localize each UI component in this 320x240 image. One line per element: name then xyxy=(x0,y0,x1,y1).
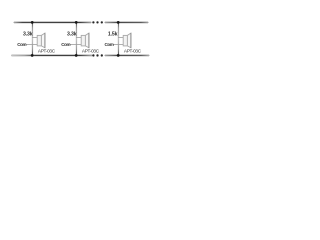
wire: branch 3 stub to sounder top pin xyxy=(118,37,124,39)
junction: branch 3 bottom node xyxy=(117,54,120,57)
piezo sounder LS2 (APT-03C) xyxy=(81,33,89,48)
wire: bottom bus, left section xyxy=(11,54,93,56)
svg-text:Com: Com xyxy=(105,42,114,47)
svg-text:APT-03C: APT-03C xyxy=(124,49,142,54)
ellipsis dots on bottom bus (repeated units) xyxy=(92,54,103,56)
piezo sounder LS1 (APT-03C) xyxy=(37,33,45,48)
ellipsis dots on top bus (repeated units) xyxy=(92,21,103,23)
junction: branch 2 top node xyxy=(75,21,78,24)
svg-text:Com: Com xyxy=(61,42,70,47)
piezo sounder LS3 (APT-03C) xyxy=(123,33,131,48)
wire: branch 1 Com lead to sounder bottom pin xyxy=(26,44,38,46)
junction: branch 3 top node xyxy=(117,21,120,24)
wire: bottom bus, right section xyxy=(105,54,150,56)
wire: branch 2 vertical xyxy=(75,22,77,55)
wire: top bus, right section xyxy=(105,21,149,23)
wire: branch 1 stub to sounder top pin xyxy=(32,37,38,39)
wire: branch 2 Com lead to sounder bottom pin xyxy=(70,44,82,46)
junction: branch 1 top node xyxy=(31,21,34,24)
wire halo: soft scan fuzz under buses xyxy=(12,22,150,55)
svg-text:Com: Com xyxy=(17,42,26,47)
wire: branch 3 Com lead to sounder bottom pin xyxy=(113,44,124,46)
wire: top bus, left section xyxy=(14,21,92,23)
wire: branch 2 stub to sounder top pin xyxy=(76,37,82,39)
svg-text:3.3k: 3.3k xyxy=(67,32,77,38)
wire: branch 3 vertical xyxy=(117,22,119,55)
svg-text:3.3k: 3.3k xyxy=(23,32,33,38)
svg-text:APT-03C: APT-03C xyxy=(38,49,56,54)
svg-text:1.5k: 1.5k xyxy=(108,32,118,38)
junction: branch 1 bottom node xyxy=(31,54,34,57)
svg-text:APT-03C: APT-03C xyxy=(82,49,100,54)
wire: branch 1 vertical xyxy=(31,22,33,55)
junction: branch 2 bottom node xyxy=(75,54,78,57)
